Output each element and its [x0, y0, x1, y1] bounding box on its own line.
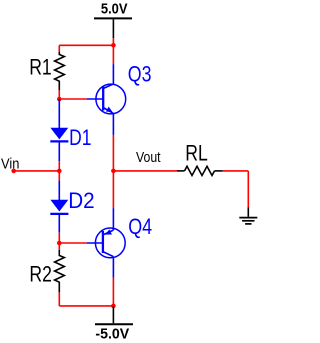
svg-text:R1: R1 — [29, 55, 52, 80]
svg-text:-5.0V: -5.0V — [95, 326, 129, 343]
svg-text:D1: D1 — [69, 125, 91, 150]
svg-text:Vin: Vin — [1, 155, 19, 172]
svg-text:R2: R2 — [29, 262, 52, 287]
svg-text:Q3: Q3 — [128, 62, 152, 87]
svg-text:D2: D2 — [68, 188, 94, 213]
svg-text:RL: RL — [185, 141, 208, 166]
svg-text:Vout: Vout — [136, 149, 161, 166]
svg-text:Q4: Q4 — [128, 214, 152, 239]
svg-text:5.0V: 5.0V — [101, 1, 128, 18]
